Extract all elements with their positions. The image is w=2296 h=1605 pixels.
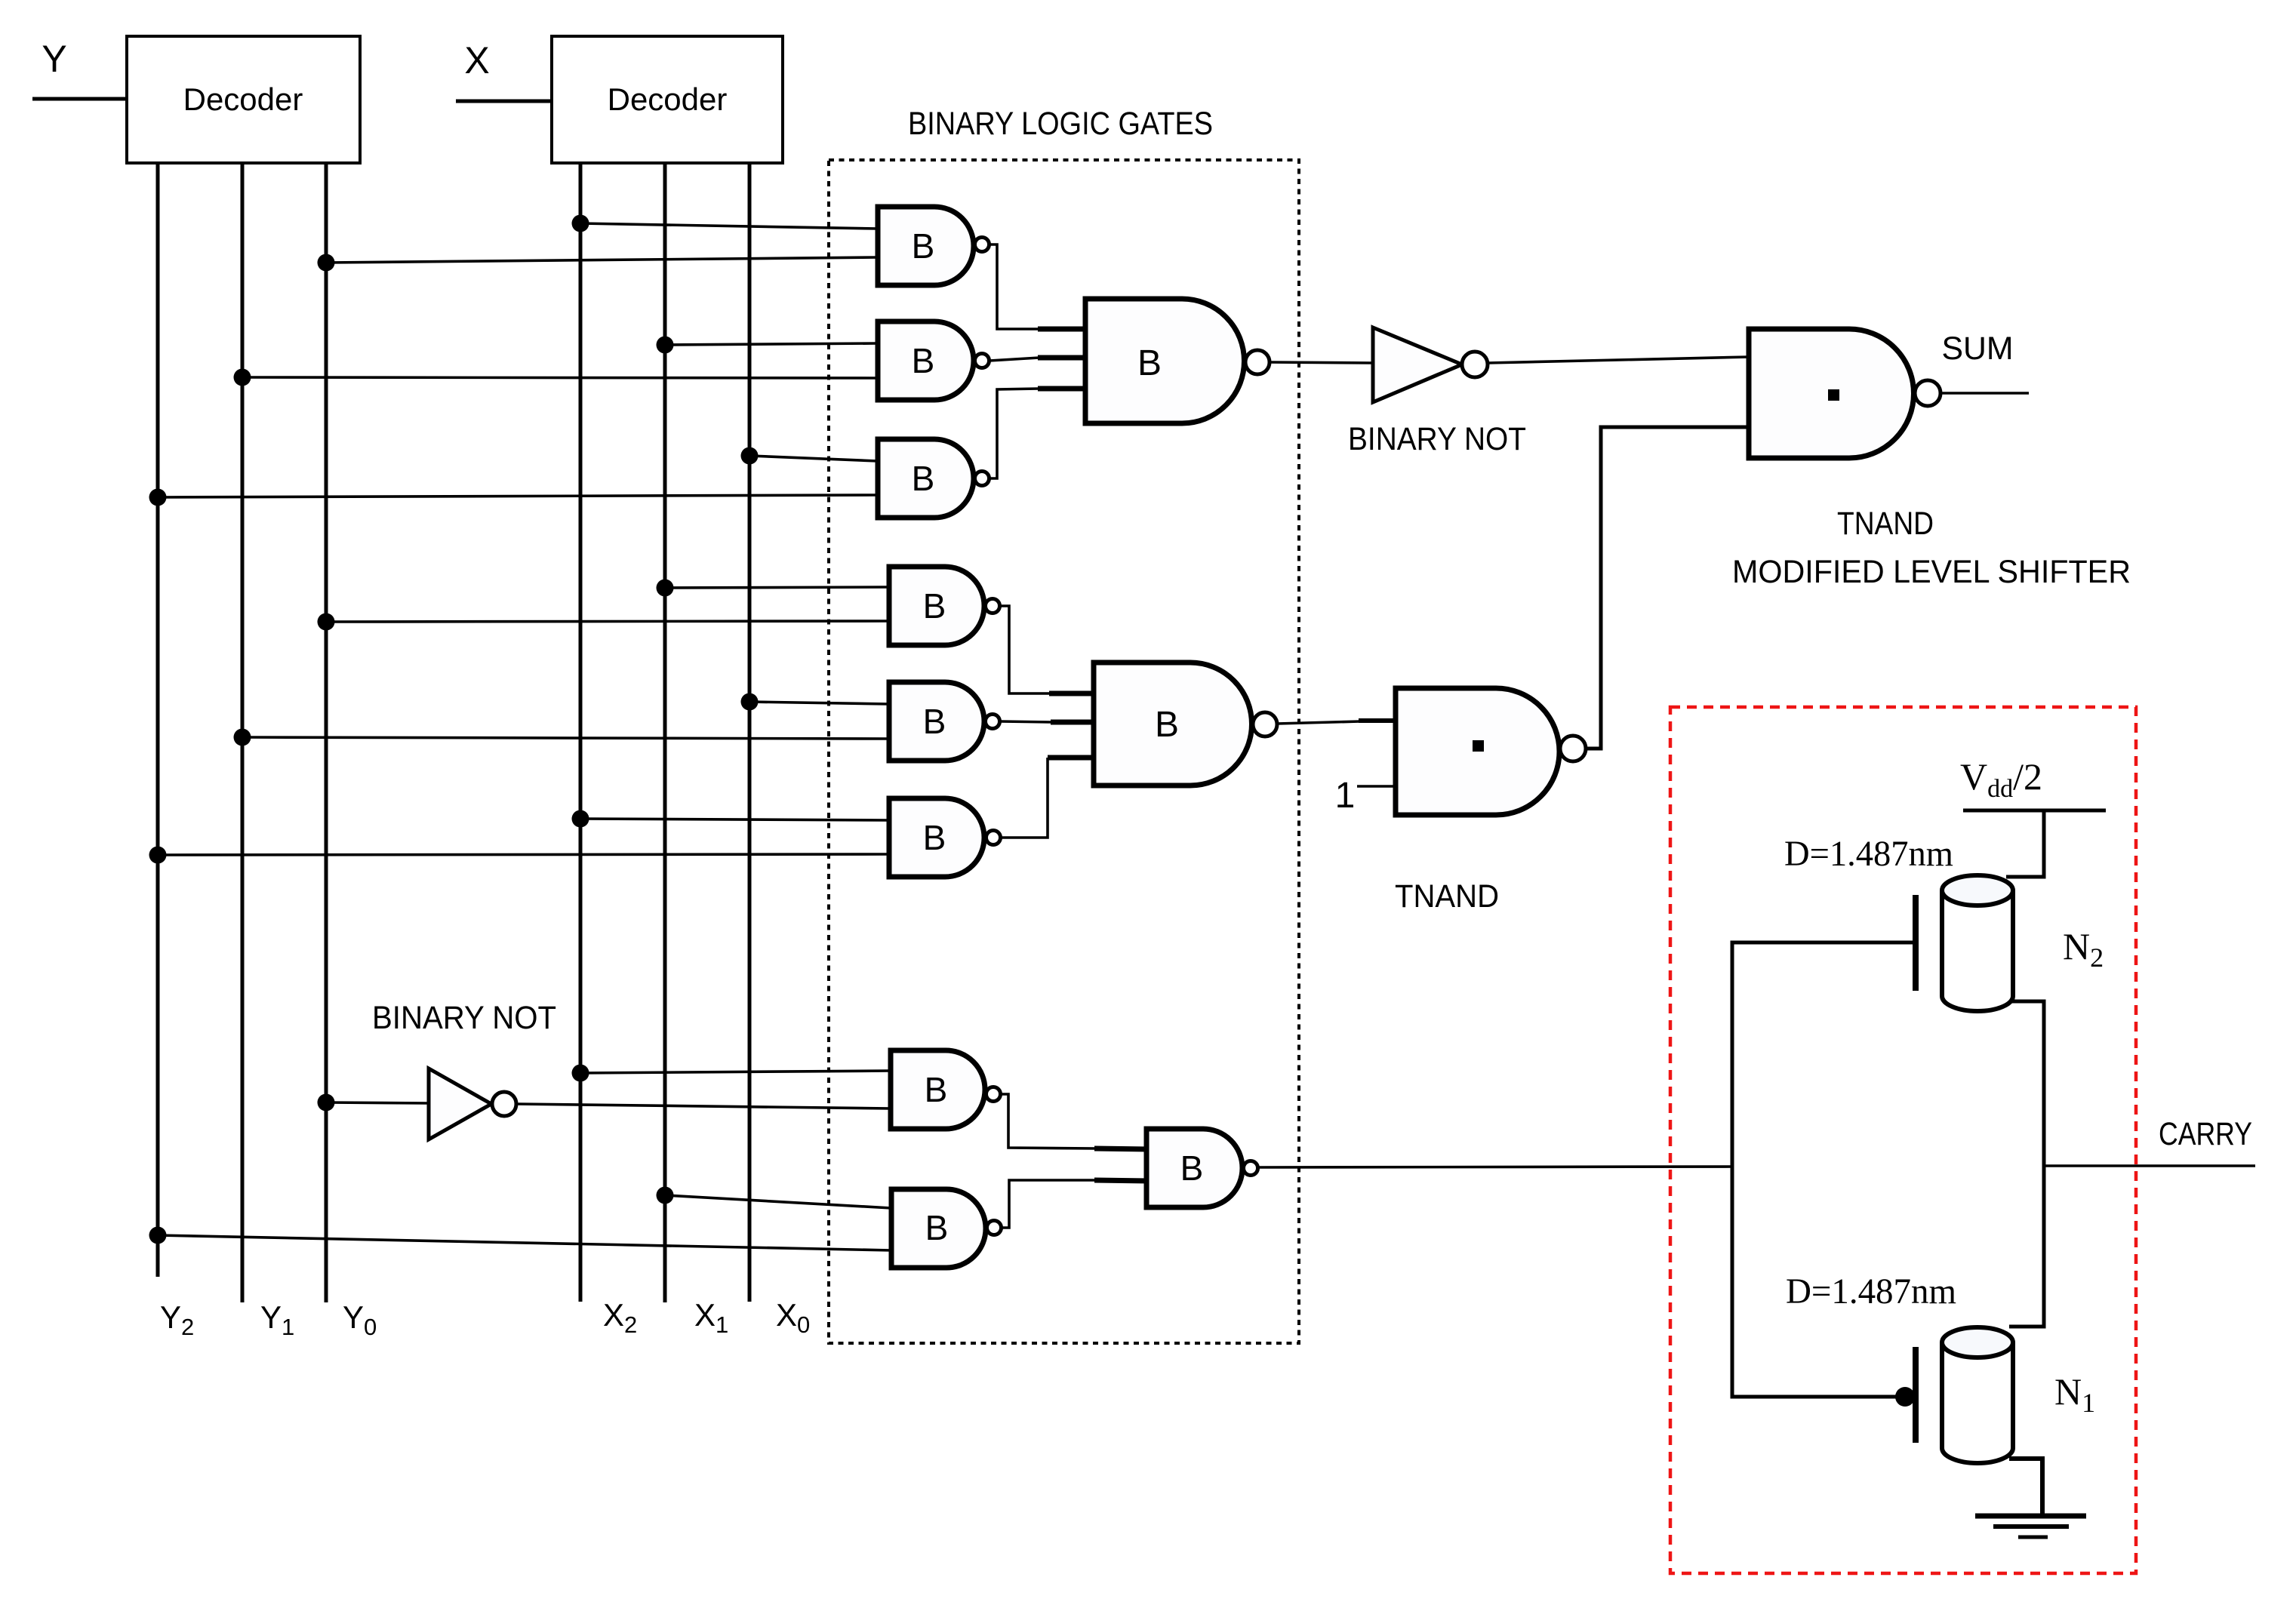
svg-text:B: B [1137, 343, 1162, 383]
dashed box BINARY LOGIC GATES [829, 160, 1299, 1343]
junction dot Y2-B9 [149, 1227, 167, 1244]
svg-text:TNAND: TNAND [1395, 878, 1499, 915]
wire Y0 to NOT2 input [326, 1102, 429, 1103]
wire B3 output to B4 input3 [989, 389, 1039, 478]
wire B5 output to Bbig2 input1 [1000, 606, 1051, 693]
wire bus Y1 [241, 163, 245, 1302]
wire X2 to B7 input1 [580, 819, 889, 820]
junction dot X2-B8 [572, 1065, 589, 1082]
svg-text:B: B [923, 586, 946, 626]
wire constant 1 stub to TNAND2 input2 [1357, 785, 1396, 788]
junction dot Y1-B6 [234, 729, 251, 746]
wire left gate rail [1732, 942, 1916, 1397]
wire Y2 to B3 input2 [158, 495, 878, 497]
wire bus Y2 [156, 163, 160, 1277]
nand gate Bbig2 (3-input) [1094, 663, 1252, 786]
nand gate B6 [889, 682, 984, 761]
svg-text:B: B [912, 341, 935, 380]
junction dot X2-B7 [572, 810, 589, 828]
transistor N2 CNT cylinder [1942, 875, 2013, 1011]
svg-text:B: B [1155, 705, 1179, 745]
wire Y1 to B2 input2 [242, 377, 878, 378]
wire TNAND2 output up to TNAND1 input2 [1586, 427, 1749, 749]
junction dot Y2-B3 [149, 489, 167, 506]
wire TNAND1 output SUM [1941, 392, 2029, 395]
wire bus Y0 [325, 163, 328, 1302]
bubble TNAND1 output [1915, 380, 1941, 406]
svg-text:B: B [925, 1070, 948, 1109]
wire Y0 to B5 input2 [326, 621, 889, 622]
svg-text:X: X [464, 39, 489, 81]
svg-text:1: 1 [1335, 776, 1356, 816]
bubble B2 output [975, 354, 989, 368]
wire X2 to B1 input1 [580, 223, 878, 229]
wire bus X2 [579, 163, 583, 1302]
wire B4 output to NOT1 input [1270, 362, 1373, 363]
junction dot Y0-NOT2 [318, 1094, 335, 1112]
wire X2 to B8 input1 [580, 1071, 891, 1073]
junction dot X0-B6 [741, 693, 759, 711]
svg-text:B: B [912, 459, 935, 498]
svg-text:D=1.487nm: D=1.487nm [1784, 834, 1953, 874]
square marker TNAND2 [1473, 740, 1484, 752]
junction dot Y0-B5 [318, 613, 335, 631]
junction dot N1 gate [1895, 1387, 1915, 1407]
junction dot X2-B1 [572, 215, 589, 232]
wire X1 to B2 input1 [665, 343, 878, 345]
nand gate B4 (3-input) [1085, 299, 1244, 423]
bubble B7 output [986, 831, 1001, 845]
bubble NOT1 output [1462, 352, 1488, 377]
wire N1 source to ground [2009, 1459, 2042, 1516]
svg-text:B: B [912, 226, 935, 266]
wire X0 to B6 input1 [749, 702, 889, 704]
nand gate B1 [878, 207, 974, 285]
wire B7 output to Bbig2 input3 [1001, 758, 1048, 838]
wire Y1 to B6 input2 [242, 737, 889, 739]
Vdd/2 rail [1963, 809, 2106, 813]
wire B9 output to B10 input2 [1002, 1180, 1096, 1228]
wire NOT2 output to B8 input2 [517, 1104, 891, 1108]
wire B8 output to B10 input1 [1001, 1094, 1096, 1148]
bubble B5 output [986, 599, 1000, 613]
bubble TNAND2 output [1560, 736, 1586, 761]
wire CARRY output [2044, 1164, 2255, 1167]
nand gate B8 [891, 1050, 985, 1129]
wire Y input [32, 97, 127, 101]
tnand gate TNAND2 [1396, 688, 1559, 815]
bubble B8 output [986, 1087, 1001, 1102]
bubble B10 output [1244, 1161, 1258, 1176]
svg-text:MODIFIED LEVEL SHIFTER: MODIFIED LEVEL SHIFTER [1732, 554, 2131, 590]
junction dot X1-B9 [657, 1187, 674, 1204]
wire Y0 to B1 input2 [326, 257, 878, 263]
svg-text:B: B [923, 702, 946, 741]
svg-text:BINARY NOT: BINARY NOT [372, 1000, 556, 1036]
junction dot Y1-B2 [234, 369, 251, 386]
transistor N1 CNT cylinder [1942, 1327, 2013, 1463]
bubble B6 output [986, 715, 1000, 729]
bubble B3 output [975, 472, 989, 486]
nand gate B10 [1146, 1129, 1242, 1207]
red dashed box MODIFIED LEVEL SHIFTER [1670, 707, 2136, 1573]
bubble NOT2 output [492, 1092, 516, 1116]
tnand gate TNAND1 [1749, 329, 1914, 458]
decoder Y box [127, 36, 360, 163]
nand gate B9 [891, 1189, 986, 1268]
wire NOT1 output to TNAND1 input1 [1488, 357, 1749, 363]
svg-text:TNAND: TNAND [1837, 506, 1934, 542]
square marker TNAND1 [1828, 389, 1839, 401]
wire Y2 to B9 input2 [158, 1235, 891, 1250]
wire Bbig2 output to TNAND2 input1 [1277, 721, 1360, 724]
wire bus X1 [663, 163, 667, 1302]
bubble B4 output [1245, 350, 1270, 374]
bubble Bbig2 output [1253, 712, 1277, 736]
svg-text:BINARY NOT: BINARY NOT [1348, 421, 1526, 457]
nand gate B2 [878, 321, 974, 400]
wire B10 output to level shifter input [1259, 1167, 1732, 1167]
junction dot Y2-B7 [149, 847, 167, 864]
svg-text:CARRY: CARRY [2159, 1116, 2252, 1152]
ground symbol [1975, 1516, 2086, 1537]
svg-text:SUM: SUM [1942, 331, 2014, 367]
svg-text:Decoder: Decoder [183, 81, 303, 117]
junction dot X0-B3 [741, 447, 759, 465]
wire X input [456, 100, 552, 103]
svg-text:B: B [1180, 1148, 1204, 1188]
svg-text:D=1.487nm: D=1.487nm [1786, 1271, 1956, 1311]
nand gate B5 [889, 567, 984, 645]
junction dot X1-B5 [657, 580, 674, 597]
wire X1 to B9 input1 [665, 1195, 891, 1208]
wire X0 to B3 input1 [749, 456, 878, 461]
wire B6 output to Bbig2 input2 [1000, 721, 1052, 722]
svg-text:B: B [923, 818, 946, 857]
transistor N2 gate bar [1913, 895, 1919, 991]
nand gate B3 [878, 439, 974, 518]
wire Vdd rail to N2 drain [2006, 810, 2044, 877]
junction dot Y0-B1 [318, 254, 335, 272]
svg-text:Y: Y [42, 38, 66, 80]
junction dot X1-B2 [657, 337, 674, 354]
wire B2 output to B4 input2 [989, 358, 1039, 361]
bubble B9 output [987, 1221, 1002, 1235]
wire B1 output to B4 input1 [989, 244, 1039, 329]
svg-text:Decoder: Decoder [608, 81, 728, 117]
not gate NOT2 (binary not) [429, 1068, 491, 1139]
not gate NOT1 (binary not) [1373, 327, 1462, 402]
wire N2 source to right rail [2009, 1001, 2044, 1327]
svg-text:B: B [925, 1208, 949, 1247]
wire Y2 to B7 input2 [158, 854, 889, 855]
bubble B1 output [975, 238, 989, 252]
svg-text:BINARY LOGIC GATES: BINARY LOGIC GATES [908, 106, 1213, 142]
transistor N1 gate bar [1913, 1347, 1919, 1443]
wire X1 to B5 input1 [665, 587, 889, 588]
decoder X box [552, 36, 783, 163]
wire bus X0 [748, 163, 752, 1302]
nand gate B7 [889, 798, 984, 877]
